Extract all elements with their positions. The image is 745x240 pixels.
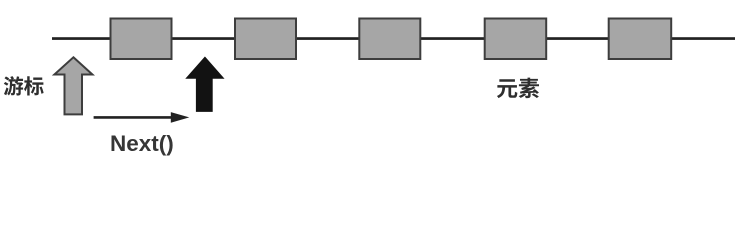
node box 3 [359, 19, 420, 60]
label: 游标 (cursor) [0, 70, 50, 102]
node box 1 [111, 19, 172, 60]
current-position block arrow (black, up) [187, 58, 223, 112]
wire: horizontal list line [52, 37, 735, 40]
cursor block arrow (gray, up) [54, 57, 92, 114]
Next() arrow shaft [94, 116, 173, 119]
node box 4 [485, 19, 547, 60]
label: Next() [110, 131, 174, 157]
label: 元素 (element) [490, 70, 550, 104]
node box 2 [235, 19, 296, 60]
Next() arrow head [171, 112, 190, 123]
node box 5 [609, 19, 672, 60]
